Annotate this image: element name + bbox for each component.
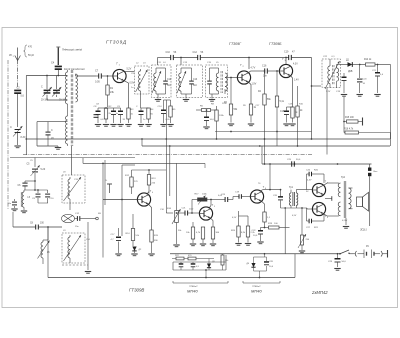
capacitor C4 <box>51 62 62 71</box>
transistor T4 GT309V <box>137 190 153 206</box>
ground ferrite circuit <box>55 146 61 149</box>
capacitor C26 <box>306 170 324 186</box>
ground IF box 1 <box>155 94 161 101</box>
top bus segment 2 <box>173 57 197 65</box>
bias resistor a <box>175 255 184 260</box>
svg-text:C16: C16 <box>262 65 267 68</box>
ground IF box 2 <box>183 94 189 101</box>
svg-text:C: C <box>41 86 43 89</box>
wire group g-h to buses <box>164 100 171 139</box>
feedback pot R17 100k <box>191 194 212 214</box>
label 1.4V <box>294 80 299 82</box>
capacitor C25 on AF bus <box>287 159 301 167</box>
padder capacitor <box>18 180 36 190</box>
brace with capacitance values <box>24 45 35 57</box>
output transformer Tr2 core <box>341 176 346 218</box>
label 1.9V <box>252 84 257 86</box>
vertical feed b <box>165 139 167 213</box>
oscillator coil box lower <box>62 227 85 263</box>
svg-text:4,3V: 4,3V <box>293 64 298 66</box>
resonating capacitor 20 <box>37 122 68 146</box>
wire ferrite to osc box <box>66 170 72 175</box>
wire T1 emitter <box>124 81 135 108</box>
tuning gang C6 <box>52 76 67 102</box>
series capacitor C8 330 <box>13 212 62 230</box>
wire C4 down <box>57 70 59 76</box>
svg-text:0,05: 0,05 <box>95 81 100 84</box>
capacitor C2 <box>14 87 24 98</box>
bypass group stage1 a <box>94 106 108 126</box>
power switch B1 <box>339 250 353 255</box>
transistor T5 MP40 <box>199 204 215 220</box>
battery wire <box>170 253 340 255</box>
driver transformer Tr1 core <box>293 192 295 206</box>
resistor R3 emitter <box>249 104 256 123</box>
AF top bus <box>262 146 372 165</box>
svg-text:8: 8 <box>327 217 328 219</box>
ground L5 <box>21 211 27 213</box>
wire T1 collector <box>124 69 134 72</box>
wire T3 emitter <box>291 76 293 107</box>
label 4.5V out <box>307 180 312 182</box>
bottom bus <box>48 254 295 279</box>
electrolytic C20 at Tr1 <box>273 189 283 208</box>
terminal bar right <box>387 250 389 258</box>
IF transformer box 2 <box>177 65 203 98</box>
wire input node <box>26 75 67 155</box>
svg-text:5,2V: 5,2V <box>127 69 132 71</box>
resistor R13 220 <box>147 139 166 193</box>
bracket stage T6 <box>243 281 280 288</box>
AGC dash-dot line <box>23 154 312 156</box>
tuning gang C5 <box>41 76 52 102</box>
label GT309V <box>129 288 144 293</box>
wire bias node T6 <box>236 211 248 216</box>
svg-text:56 pF: 56 pF <box>28 54 35 57</box>
svg-text:Telescopic aerial: Telescopic aerial <box>62 48 82 52</box>
whip antenna Wa1 <box>15 48 21 89</box>
svg-text:R15 100: R15 100 <box>345 117 354 119</box>
wire T4 emitter <box>149 204 152 230</box>
wire output bias to bus <box>254 271 267 278</box>
driver transformer Tr1 secondary <box>296 190 298 208</box>
oscillator coil box L4 <box>135 66 150 108</box>
decoupling bus <box>215 131 312 133</box>
resistor R7 <box>296 86 303 146</box>
connector pair left <box>354 251 363 257</box>
top bus segment 5 <box>291 58 321 140</box>
transistor T8 MP42 <box>312 202 328 219</box>
svg-text:4,5V: 4,5V <box>292 215 297 217</box>
output bias electrolytic C28 <box>264 257 274 271</box>
label MP40 first <box>187 289 198 294</box>
wire bottom bus from osc <box>47 227 49 278</box>
capacitor C23 <box>221 194 239 202</box>
label speaker <box>360 229 367 232</box>
wire T6 emitter <box>262 201 265 212</box>
connector pair right <box>378 251 388 257</box>
wire volume feed <box>166 212 173 214</box>
volume potentiometer <box>167 163 181 246</box>
svg-text:0,24V: 0,24V <box>342 220 348 222</box>
series capacitor C19 driver base <box>235 192 250 199</box>
vertical feed d <box>264 139 266 165</box>
svg-text:Д9В: Д9В <box>348 71 353 73</box>
resistor R10 100 <box>343 117 362 126</box>
driver transformer Tr1 primary <box>289 186 294 208</box>
misc value labels row <box>96 103 304 121</box>
bypass group stage1 c <box>106 108 119 126</box>
capacitor C10 56 <box>166 51 177 60</box>
trimmer cap padding <box>27 158 46 182</box>
bracket stage T5 <box>173 281 228 288</box>
transistor T1 GT309D <box>113 69 126 82</box>
resistor T5 emitter 300 <box>210 227 220 246</box>
diode D2 <box>131 247 142 256</box>
svg-text:C19: C19 <box>284 51 289 54</box>
svg-text:4: 4 <box>152 192 153 194</box>
svg-text:ЗГД-1: ЗГД-1 <box>360 229 367 232</box>
wire Tr1 primary bottom <box>281 207 308 254</box>
bypass group stage1 d <box>114 106 124 126</box>
top bus segment 3 <box>200 57 250 69</box>
vertical feed right of osc <box>104 160 106 205</box>
svg-text:R14 1k: R14 1k <box>364 59 372 61</box>
trimmer capacitor C3 <box>10 125 26 139</box>
resistor R5 <box>275 71 284 146</box>
label Wa1 <box>9 53 15 58</box>
piezo filter oval <box>62 203 75 223</box>
ground R3 <box>248 124 254 126</box>
series capacitor C16 <box>262 65 268 78</box>
top bus segment 4 <box>249 57 289 65</box>
wire Tr1 sec bottom to T8 <box>307 208 313 221</box>
bias resistor b <box>172 255 204 260</box>
svg-text:ГТ309Б: ГТ309Б <box>269 42 282 46</box>
svg-text:МП40: МП40 <box>251 289 262 294</box>
svg-text:470: 470 <box>28 46 33 49</box>
pickup jack <box>105 179 112 193</box>
svg-text:0,9V: 0,9V <box>130 83 135 85</box>
wire mid bias <box>193 221 213 223</box>
wire T7 collector <box>324 183 339 185</box>
resistor R4 bias <box>258 70 272 139</box>
bias cluster wires <box>172 254 226 270</box>
transistor T6 MP40 driver <box>250 186 266 203</box>
wire T4 collector <box>147 192 149 195</box>
svg-text:5: 5 <box>214 206 215 208</box>
oscillator coil box upper <box>62 175 85 203</box>
transistor T3 GT309B <box>279 57 292 78</box>
bias resistor c vertical <box>221 254 229 270</box>
label 2xMP42 <box>311 290 328 295</box>
left margin dash-dot line <box>7 60 9 210</box>
electrolytic C29 <box>328 254 347 270</box>
capacitor C18 emitter bypass <box>280 107 293 126</box>
output transformer Tr2 primary lower <box>334 197 341 216</box>
resistor T5 base bias <box>196 222 206 246</box>
IF transformer box 1 <box>152 65 172 98</box>
wire R9 node <box>375 64 391 66</box>
label GT309B heading <box>269 42 282 46</box>
transistor T7 MP42 <box>312 181 328 197</box>
coil L3 oscillator pickup <box>66 108 68 146</box>
ground under C3 <box>14 133 20 148</box>
wire T8 collector <box>323 214 338 216</box>
bias capacitor b <box>191 262 200 270</box>
supply bus B <box>142 145 390 147</box>
oscillator coil L5 <box>21 190 31 210</box>
wire diode to R9 <box>353 64 366 66</box>
misc value labels det <box>323 56 335 93</box>
coil L1 primary <box>66 70 68 108</box>
AGC filter R and C <box>196 106 217 129</box>
output bias diode D4 <box>247 254 265 271</box>
terminal circle <box>96 217 99 220</box>
pot R23 volume bottom right <box>298 228 310 253</box>
wire T2 emitter <box>249 82 252 104</box>
emitter junction bar <box>325 196 332 201</box>
resistor R9 AGC <box>364 59 375 66</box>
bypass group stage1 b <box>103 106 112 126</box>
svg-text:ГТ309Г: ГТ309Г <box>229 42 242 46</box>
resistor R1 23k <box>106 75 115 107</box>
supply bus A <box>25 138 390 140</box>
AGC electrolytic C21 <box>372 65 384 97</box>
decoupling group h <box>167 100 176 126</box>
svg-text:C: C <box>10 125 12 129</box>
wire T5 collector <box>209 199 225 209</box>
resistor R6 emitter <box>289 107 298 126</box>
resistor R24 base bias T6 <box>231 216 246 245</box>
label 4.3V <box>293 64 298 66</box>
svg-text:C10: C10 <box>166 51 171 54</box>
svg-text:Тр2: Тр2 <box>341 176 346 179</box>
ground IF box 3 <box>209 94 215 101</box>
ground Tr2 <box>343 218 349 228</box>
resistor R14 51k <box>126 214 145 246</box>
decoupling group f <box>145 108 154 126</box>
power feed vertical <box>369 176 371 226</box>
vertical feed a <box>169 146 171 196</box>
wire box3 to T2 base <box>228 77 238 79</box>
wire T4 base <box>103 199 137 201</box>
wire secondary to T1 base <box>76 75 97 77</box>
resistor ladder a <box>186 222 196 246</box>
ferrite rod core <box>71 70 73 146</box>
wire T6 collector <box>260 164 280 191</box>
wire box top <box>329 59 331 62</box>
svg-text:C: C <box>51 129 53 132</box>
top bus segment 1 <box>158 58 171 66</box>
svg-text:4,5V: 4,5V <box>232 217 237 219</box>
wire T2 collector node <box>249 71 265 73</box>
svg-text:МП40: МП40 <box>187 289 198 294</box>
left bus lower <box>10 138 143 157</box>
label MP40 second <box>251 289 262 294</box>
wire T5 emitter <box>211 218 213 227</box>
output transformer Tr2 primary upper <box>338 183 340 197</box>
capacitor C19 47 <box>284 51 295 61</box>
svg-text:8-30: 8-30 <box>21 136 26 139</box>
wires gang to coil <box>47 95 67 100</box>
power terminal <box>368 164 378 176</box>
svg-text:9V: 9V <box>366 245 369 248</box>
ground oscillator right <box>85 219 96 274</box>
output transformer Tr2 secondary <box>349 188 353 209</box>
vertical wire left block <box>83 158 205 258</box>
svg-text:Ferrit transformer: Ferrit transformer <box>64 67 85 71</box>
svg-text:C18: C18 <box>280 111 285 113</box>
svg-text:Pr: Pr <box>105 179 107 182</box>
right vertical feed <box>390 65 392 147</box>
wire coil bottom down <box>71 146 73 175</box>
battery B 9V <box>363 245 378 258</box>
label GT309G heading <box>229 42 242 46</box>
label GT309D heading <box>106 40 127 45</box>
detector load capacitor <box>336 65 347 133</box>
label telescopic aerial <box>62 48 82 52</box>
capacitor C27 <box>306 214 324 229</box>
svg-text:4,7V: 4,7V <box>251 68 256 70</box>
resistor R25 base bias T6b <box>245 216 256 245</box>
thermistor diode D3 <box>204 259 215 271</box>
svg-text:1,9V: 1,9V <box>252 84 257 86</box>
svg-text:1,4V: 1,4V <box>294 80 299 82</box>
mechanical link dash <box>62 264 88 266</box>
decoupling group g <box>158 102 167 126</box>
svg-text:C13: C13 <box>193 79 198 81</box>
electrolytic C17 <box>111 228 134 256</box>
coupling cap bottom-left <box>8 199 18 211</box>
series capacitor C7 <box>95 70 113 84</box>
wire detector to bus <box>326 88 328 155</box>
svg-text:ГТ309Д: ГТ309Д <box>106 40 127 45</box>
label 4.7V <box>251 68 256 70</box>
misc value labels osc <box>30 160 101 241</box>
transistor T2 GT309G <box>237 63 250 84</box>
variable coil left <box>38 227 71 264</box>
decoupling group e <box>136 106 149 126</box>
svg-text:ГТ309В: ГТ309В <box>129 288 144 293</box>
electrolytic C22 <box>252 228 265 244</box>
resistor R19 100 horizontal <box>265 223 290 229</box>
wire C16 to T3 base <box>267 70 279 72</box>
IF transformer box 3 <box>206 65 228 98</box>
svg-text:R16 4,7k: R16 4,7k <box>344 129 354 131</box>
loudspeaker Gr1 <box>353 188 369 211</box>
svg-text:2хМП42: 2хМП42 <box>311 290 328 295</box>
svg-text:5-20: 5-20 <box>41 169 46 171</box>
label ferrite transformer <box>64 67 85 71</box>
capacitor C9 osc <box>32 190 48 203</box>
misc value labels af <box>160 183 348 232</box>
svg-text:Тр1: Тр1 <box>289 186 294 189</box>
series capacitor C21 <box>177 208 200 216</box>
capacitor C12 56 <box>193 51 204 60</box>
capacitor to ground x96 <box>94 108 99 121</box>
vertical wire left block 2 <box>122 165 135 236</box>
resistor R8 120k <box>211 104 225 140</box>
resistor R15 390 <box>148 230 158 256</box>
bias capacitor a <box>179 262 184 270</box>
wire antenna to C3 <box>17 94 19 127</box>
detector IF transformer box <box>322 59 341 89</box>
capacitor after filter <box>75 213 96 228</box>
wire Tr1 sec top to T7 <box>296 174 312 190</box>
svg-text:C12: C12 <box>193 51 198 54</box>
wire osc top <box>24 181 48 191</box>
svg-text:4,5V: 4,5V <box>307 180 312 182</box>
svg-text:5,2V: 5,2V <box>326 91 331 93</box>
capacitor C10 osc <box>45 190 54 203</box>
resistor R11 4.7k <box>344 129 391 140</box>
coil L2 secondary <box>76 74 78 102</box>
diode D1 detector <box>341 59 353 74</box>
telescopic aerial stub <box>56 47 60 65</box>
emitter resistor group T1 <box>125 108 134 126</box>
resistor R12 270 <box>125 170 149 196</box>
label T1 <box>116 62 121 67</box>
ground R2 <box>228 124 234 126</box>
filter capacitor mid <box>357 65 368 97</box>
misc value labels top <box>131 62 219 89</box>
resistor R18 1k <box>263 212 271 228</box>
wire bias to bottom bus <box>205 269 207 277</box>
resistor R2 base bias <box>224 78 238 123</box>
